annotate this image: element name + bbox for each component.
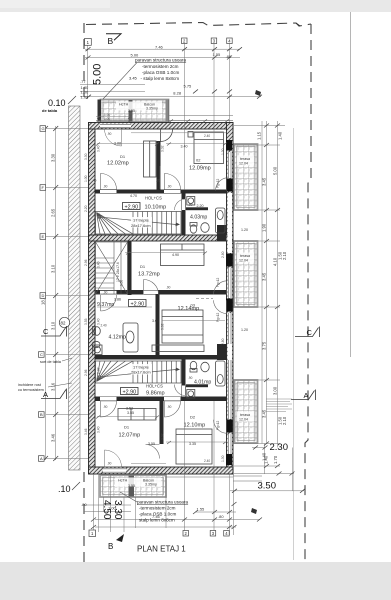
svg-text:12.09mp: 12.09mp bbox=[189, 166, 211, 172]
svg-text:02: 02 bbox=[196, 158, 201, 163]
svg-text:3.45: 3.45 bbox=[261, 272, 266, 281]
svg-text:3.35: 3.35 bbox=[189, 442, 196, 446]
svg-text:.45: .45 bbox=[92, 179, 97, 183]
svg-text:3.40: 3.40 bbox=[97, 426, 101, 433]
svg-text:.90: .90 bbox=[188, 376, 193, 380]
svg-text:.10: .10 bbox=[58, 484, 71, 494]
svg-text:4.90: 4.90 bbox=[172, 253, 179, 257]
svg-text:B: B bbox=[108, 542, 113, 551]
svg-text:D2: D2 bbox=[190, 415, 196, 420]
svg-text:+2.90: +2.90 bbox=[125, 204, 139, 210]
svg-text:A: A bbox=[43, 390, 48, 399]
svg-text:4.50: 4.50 bbox=[101, 500, 112, 520]
svg-text:sort de tabla: sort de tabla bbox=[40, 360, 62, 364]
svg-text:- stalp lemn 8x8cm: - stalp lemn 8x8cm bbox=[141, 76, 180, 81]
svg-text:+2.90: +2.90 bbox=[131, 301, 145, 307]
svg-text:5.75: 5.75 bbox=[184, 83, 193, 88]
svg-text:.90: .90 bbox=[188, 203, 193, 207]
svg-text:.80: .80 bbox=[218, 514, 224, 519]
svg-text:1.40: 1.40 bbox=[278, 131, 283, 140]
svg-text:Pg=12: Pg=12 bbox=[216, 277, 220, 287]
svg-text:Pg=12: Pg=12 bbox=[216, 420, 220, 430]
svg-text:3.40: 3.40 bbox=[97, 145, 101, 152]
svg-text:1.15: 1.15 bbox=[257, 131, 262, 140]
svg-text:3.50: 3.50 bbox=[258, 481, 277, 492]
svg-text:9.86mp: 9.86mp bbox=[146, 391, 165, 397]
svg-text:17 tr 28x17.6: 17 tr 28x17.6 bbox=[116, 262, 120, 282]
svg-text:1.03: 1.03 bbox=[81, 94, 90, 99]
svg-text:E: E bbox=[42, 234, 45, 239]
svg-text:D1: D1 bbox=[120, 154, 126, 159]
svg-text:17 trepte: 17 trepte bbox=[133, 218, 150, 223]
svg-text:12.04: 12.04 bbox=[239, 418, 248, 422]
svg-text:13.72mp: 13.72mp bbox=[138, 272, 160, 278]
svg-text:HcTH: HcTH bbox=[119, 103, 129, 107]
svg-text:1.00: 1.00 bbox=[104, 117, 110, 121]
svg-text:12.07mp: 12.07mp bbox=[119, 433, 141, 439]
svg-text:paravan structura usoara: paravan structura usoara bbox=[137, 500, 189, 505]
svg-text:3.45: 3.45 bbox=[129, 76, 138, 81]
svg-text:12.10mp: 12.10mp bbox=[184, 423, 206, 429]
svg-text:3.30: 3.30 bbox=[112, 500, 123, 520]
svg-text:D1: D1 bbox=[140, 264, 146, 269]
svg-text:2.96: 2.96 bbox=[84, 369, 88, 376]
svg-text:-termosistem 2cm: -termosistem 2cm bbox=[139, 506, 176, 511]
svg-text:3.53: 3.53 bbox=[126, 407, 133, 411]
svg-text:2.10: 2.10 bbox=[282, 251, 287, 260]
svg-text:10.10mp: 10.10mp bbox=[145, 205, 167, 211]
svg-text:A: A bbox=[40, 456, 43, 461]
svg-text:3.55: 3.55 bbox=[127, 411, 134, 415]
svg-text:D: D bbox=[42, 293, 45, 298]
svg-text:1.90: 1.90 bbox=[261, 223, 266, 232]
svg-text:4.12mp: 4.12mp bbox=[109, 335, 126, 341]
svg-text:3.35mp: 3.35mp bbox=[146, 107, 158, 111]
svg-text:3.02: 3.02 bbox=[161, 145, 165, 152]
svg-text:C: C bbox=[43, 327, 49, 336]
svg-text:3.40: 3.40 bbox=[181, 145, 188, 149]
svg-text:2.10: 2.10 bbox=[282, 416, 287, 425]
svg-text:2.20: 2.20 bbox=[197, 204, 204, 208]
svg-text:2.80: 2.80 bbox=[221, 251, 225, 258]
svg-text:C: C bbox=[40, 352, 43, 357]
svg-text:.77: .77 bbox=[80, 79, 86, 84]
svg-text:2.80: 2.80 bbox=[221, 338, 225, 345]
svg-text:3.10: 3.10 bbox=[51, 321, 56, 330]
svg-text:2.20: 2.20 bbox=[84, 205, 88, 212]
svg-text:1.40: 1.40 bbox=[263, 455, 268, 464]
svg-text:.80: .80 bbox=[81, 502, 87, 507]
svg-text:-placa OSB 1.0cm: -placa OSB 1.0cm bbox=[142, 70, 179, 75]
svg-text:28x17.6cm: 28x17.6cm bbox=[131, 370, 151, 375]
svg-text:2.65: 2.65 bbox=[51, 208, 56, 217]
svg-text:2.02: 2.02 bbox=[97, 212, 101, 219]
svg-text:12.14mp: 12.14mp bbox=[178, 306, 200, 312]
svg-text:5.00: 5.00 bbox=[92, 64, 104, 85]
svg-text:terasa: terasa bbox=[240, 254, 250, 258]
svg-text:3.45: 3.45 bbox=[261, 409, 266, 418]
svg-text:3.02: 3.02 bbox=[161, 433, 165, 440]
svg-text:4.01mp: 4.01mp bbox=[194, 380, 211, 386]
svg-text:C: C bbox=[307, 328, 313, 337]
svg-text:terasa: terasa bbox=[240, 157, 250, 161]
svg-text:3.46: 3.46 bbox=[84, 428, 88, 435]
svg-text:3.45: 3.45 bbox=[261, 177, 266, 186]
svg-text:2.40: 2.40 bbox=[101, 324, 107, 328]
svg-text:2.40: 2.40 bbox=[204, 459, 210, 463]
svg-text:12.04: 12.04 bbox=[239, 259, 248, 263]
svg-text:-termosistem 2cm: -termosistem 2cm bbox=[142, 64, 179, 69]
svg-text:HcTH: HcTH bbox=[118, 479, 128, 483]
svg-text:.90: .90 bbox=[103, 185, 108, 189]
svg-text:.80: .80 bbox=[226, 54, 232, 59]
svg-text:1.00: 1.00 bbox=[84, 175, 88, 182]
svg-text:HOL+CS: HOL+CS bbox=[146, 384, 163, 389]
svg-text:3.30: 3.30 bbox=[51, 153, 56, 162]
svg-text:1.55: 1.55 bbox=[213, 52, 222, 57]
svg-text:1.55: 1.55 bbox=[197, 507, 206, 512]
svg-text:1.20: 1.20 bbox=[241, 228, 248, 232]
svg-text:3.75: 3.75 bbox=[261, 341, 266, 350]
svg-text:.26: .26 bbox=[156, 179, 161, 183]
svg-text:1.70: 1.70 bbox=[273, 455, 278, 464]
svg-text:82: 82 bbox=[61, 321, 66, 326]
svg-text:28x17.6cm: 28x17.6cm bbox=[131, 223, 151, 228]
svg-text:inchidere rost: inchidere rost bbox=[18, 383, 42, 387]
svg-text:3.35mp: 3.35mp bbox=[145, 483, 157, 487]
svg-text:cu termosistem: cu termosistem bbox=[18, 388, 44, 392]
svg-text:+2.90: +2.90 bbox=[123, 389, 137, 395]
svg-text:8.28: 8.28 bbox=[173, 90, 182, 95]
svg-text:.90: .90 bbox=[166, 286, 171, 290]
svg-text:3.55: 3.55 bbox=[128, 109, 135, 113]
svg-text:5.00: 5.00 bbox=[272, 166, 277, 175]
svg-text:3.46: 3.46 bbox=[51, 433, 56, 442]
svg-text:stalp lemn 8x8cm: stalp lemn 8x8cm bbox=[139, 518, 175, 523]
svg-text:.90: .90 bbox=[107, 132, 112, 136]
svg-text:.90: .90 bbox=[107, 462, 112, 466]
svg-text:1.00: 1.00 bbox=[120, 280, 124, 286]
svg-text:3.02: 3.02 bbox=[152, 319, 159, 323]
svg-text:1.20: 1.20 bbox=[241, 328, 248, 332]
svg-text:7.46: 7.46 bbox=[155, 44, 164, 49]
svg-text:3.40: 3.40 bbox=[97, 261, 101, 268]
svg-text:3.30: 3.30 bbox=[84, 153, 88, 160]
svg-text:3.86: 3.86 bbox=[114, 298, 121, 302]
svg-text:.90: .90 bbox=[167, 185, 172, 189]
svg-text:D1: D1 bbox=[124, 425, 130, 430]
svg-text:terasa: terasa bbox=[240, 413, 250, 417]
svg-text:A: A bbox=[304, 391, 309, 400]
svg-text:4.70: 4.70 bbox=[130, 194, 137, 198]
svg-text:2.02: 2.02 bbox=[97, 367, 101, 374]
svg-text:paravan structura usoara: paravan structura usoara bbox=[135, 57, 187, 62]
svg-text:2.96: 2.96 bbox=[84, 259, 88, 266]
svg-text:G: G bbox=[42, 126, 45, 131]
svg-text:3.00: 3.00 bbox=[272, 386, 277, 395]
svg-text:2.40: 2.40 bbox=[204, 134, 210, 138]
svg-text:.90: .90 bbox=[103, 405, 108, 409]
svg-text:12.02mp: 12.02mp bbox=[107, 161, 129, 167]
svg-text:3.02: 3.02 bbox=[161, 323, 165, 330]
svg-text:de tabla: de tabla bbox=[42, 108, 58, 113]
svg-text:4.03mp: 4.03mp bbox=[190, 215, 207, 221]
svg-text:2.30: 2.30 bbox=[270, 442, 289, 453]
svg-text:-placa OSB 1.0cm: -placa OSB 1.0cm bbox=[139, 512, 176, 517]
svg-text:B: B bbox=[40, 412, 43, 417]
svg-text:B: B bbox=[108, 36, 114, 46]
svg-text:12.04: 12.04 bbox=[239, 162, 248, 166]
svg-text:HOL+CS: HOL+CS bbox=[145, 196, 162, 201]
svg-text:1.30: 1.30 bbox=[221, 455, 225, 462]
svg-text:0.10: 0.10 bbox=[48, 98, 66, 108]
svg-text:3.55: 3.55 bbox=[148, 442, 155, 446]
svg-text:3.55: 3.55 bbox=[128, 484, 135, 488]
svg-text:PLAN ETAJ 1: PLAN ETAJ 1 bbox=[137, 545, 186, 554]
svg-text:.90: .90 bbox=[103, 291, 108, 295]
svg-text:3.10: 3.10 bbox=[51, 264, 56, 273]
svg-text:1.30: 1.30 bbox=[221, 148, 225, 155]
svg-text:.90: .90 bbox=[167, 405, 172, 409]
svg-text:3.55: 3.55 bbox=[84, 318, 88, 325]
svg-text:Pg=12: Pg=12 bbox=[216, 178, 220, 188]
